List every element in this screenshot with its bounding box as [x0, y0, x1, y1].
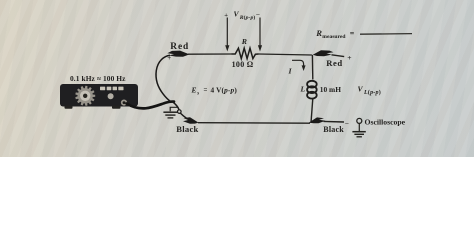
alligator clip (oscilloscope black lead)	[309, 117, 326, 123]
alligator clip on top wire left end	[167, 51, 189, 57]
ground (generator side)	[163, 107, 177, 118]
inductor L coil	[307, 81, 317, 99]
svg-text:s: s	[196, 92, 199, 97]
svg-text:V: V	[234, 10, 240, 19]
function generator small knob	[108, 93, 114, 99]
wire: top horizontal	[188, 54, 312, 55]
svg-text:V: V	[358, 85, 364, 94]
svg-text:Red: Red	[326, 58, 342, 68]
svg-text:E: E	[191, 86, 197, 95]
svg-text:L: L	[300, 85, 306, 94]
wire: vertical from node to inductor	[311, 55, 313, 80]
svg-text:10 mH: 10 mH	[320, 85, 341, 94]
function generator output jack	[121, 100, 127, 106]
wire: inductor bottom stem	[311, 98, 313, 122]
svg-text:R: R	[315, 28, 322, 38]
svg-text:Red: Red	[170, 42, 189, 52]
svg-text:=: =	[350, 29, 355, 38]
svg-text:Black: Black	[323, 125, 344, 134]
wire: bottom horizontal	[198, 122, 310, 125]
measurement arrow left (V_R)	[225, 18, 229, 52]
oscilloscope black lead wire stub	[324, 120, 345, 123]
svg-text:–: –	[344, 120, 349, 127]
red lead wire (curves up to top wire)	[156, 55, 171, 102]
current arrow I	[288, 60, 306, 75]
svg-text:0.1 kHz ≈ 100 Hz: 0.1 kHz ≈ 100 Hz	[70, 74, 126, 83]
svg-text:–: –	[255, 11, 260, 18]
generator output cable	[127, 102, 175, 109]
svg-text:measured: measured	[322, 34, 346, 40]
svg-text:+: +	[167, 55, 171, 62]
ground (oscilloscope side)	[352, 123, 365, 136]
svg-text:100 Ω: 100 Ω	[232, 60, 254, 69]
measurement arrow right (V_R)	[258, 18, 262, 52]
function generator body	[60, 84, 138, 109]
svg-text:I: I	[288, 67, 293, 76]
alligator clip (generator black lead)	[183, 117, 199, 124]
svg-text:R(p-p): R(p-p)	[239, 14, 256, 21]
svg-text:4 V(p-p): 4 V(p-p)	[211, 86, 238, 95]
oscilloscope terminal circle	[357, 118, 362, 123]
small loop in black lead	[178, 110, 182, 114]
function generator buttons	[100, 87, 124, 91]
black lead from cable to clip	[172, 101, 179, 109]
blank answer line	[360, 33, 412, 36]
svg-text:Oscilloscope: Oscilloscope	[365, 117, 406, 126]
svg-text:R: R	[241, 37, 247, 46]
svg-text:+: +	[347, 53, 351, 62]
node: top right corner	[311, 54, 313, 56]
function generator dial knob	[75, 86, 95, 106]
svg-text:=: =	[204, 87, 208, 94]
svg-text:Black: Black	[176, 124, 198, 134]
svg-text:L(p-p): L(p-p)	[363, 89, 381, 96]
resistor R 100 ohm zigzag	[232, 48, 259, 58]
alligator clip (oscilloscope red lead)	[313, 50, 334, 56]
oscilloscope red lead wire stub	[332, 55, 345, 57]
